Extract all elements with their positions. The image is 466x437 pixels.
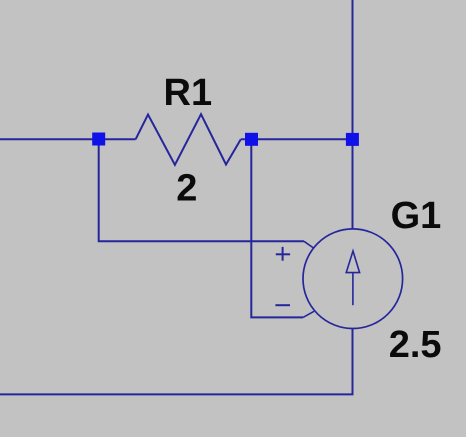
wire: left horizontal net segment <box>0 138 136 140</box>
current source G1 arrow shaft <box>352 273 354 306</box>
node: right junction square <box>346 133 359 146</box>
G1 control port bottom lead into circle <box>303 311 314 317</box>
svg-text:2.5: 2.5 <box>389 324 442 366</box>
wire: vertical wire below G1 to bottom rail <box>352 329 354 395</box>
current source G1 arrow head <box>346 251 359 273</box>
wire: bottom horizontal rail <box>0 393 354 395</box>
svg-text:R1: R1 <box>164 72 213 114</box>
svg-text:G1: G1 <box>391 195 442 237</box>
current source G1 circle <box>303 229 403 329</box>
wire: horizontal segment from resistor to right node <box>241 138 348 140</box>
resistor R1 body (zigzag) <box>136 114 241 165</box>
svg-text:2: 2 <box>176 168 197 210</box>
G1 control plus sign <box>276 247 290 261</box>
G1 control port top lead into circle <box>304 241 314 248</box>
node: left junction square <box>92 133 105 146</box>
node: middle junction square <box>245 133 258 146</box>
G1 control minus sign <box>275 304 290 306</box>
wire: top vertical wire into right node <box>352 0 354 229</box>
wire: vertical drop from middle node to control minus <box>251 145 303 317</box>
wire: vertical drop from left node to control plus <box>99 145 304 241</box>
